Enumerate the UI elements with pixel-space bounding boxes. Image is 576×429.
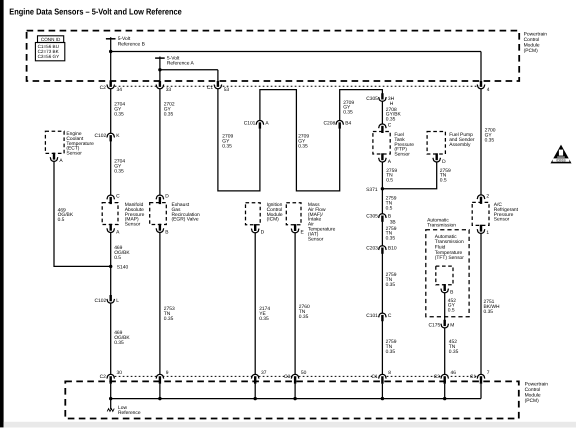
svg-text:C: C [388,123,392,129]
svg-text:30: 30 [117,370,123,376]
svg-text:Control: Control [525,387,541,393]
svg-text:0.5: 0.5 [114,255,121,261]
svg-text:B10: B10 [388,246,397,252]
svg-text:0.35: 0.35 [386,117,396,123]
svg-text:Assembly: Assembly [449,142,471,148]
svg-text:Module: Module [525,393,541,399]
svg-text:0.35: 0.35 [343,110,353,116]
svg-text:(PCM): (PCM) [524,48,538,54]
svg-text:(PCM): (PCM) [525,398,539,404]
svg-text:(TFT) Sensor: (TFT) Sensor [435,255,464,261]
svg-text:0.5: 0.5 [440,178,447,184]
svg-text:0.35: 0.35 [114,111,124,117]
svg-text:B: B [165,229,168,235]
svg-text:D: D [261,230,265,236]
svg-text:C203: C203 [366,246,378,252]
svg-text:C1: C1 [371,374,378,380]
svg-text:B4: B4 [345,120,351,126]
svg-text:5-Volt: 5-Volt [118,36,131,42]
svg-text:Sensor: Sensor [66,151,82,157]
svg-text:9: 9 [166,370,169,376]
svg-text:Automatic: Automatic [435,234,457,240]
svg-text:0.35: 0.35 [164,111,174,117]
svg-text:50: 50 [301,370,307,376]
svg-text:Sensor: Sensor [494,217,510,223]
svg-text:46: 46 [451,370,457,376]
svg-text:Engine Data Sensors – 5-Volt a: Engine Data Sensors – 5-Volt and Low Ref… [9,6,182,16]
svg-text:Temperature: Temperature [435,250,463,256]
svg-text:0.35: 0.35 [222,143,232,149]
svg-text:C3=56 GY: C3=56 GY [38,54,60,59]
svg-text:C208: C208 [323,120,335,126]
svg-text:Transmission: Transmission [435,239,464,245]
svg-text:C2: C2 [100,85,107,91]
svg-text:C305: C305 [366,214,378,220]
svg-text:Powertrain: Powertrain [524,31,548,37]
svg-text:Reference A: Reference A [167,61,195,67]
svg-text:0.35: 0.35 [386,236,396,242]
svg-text:53: 53 [224,87,230,93]
svg-text:0.35: 0.35 [114,340,124,346]
svg-text:L: L [116,298,119,304]
svg-text:(ICM): (ICM) [267,217,280,223]
svg-text:34: 34 [117,87,123,93]
svg-text:7: 7 [487,370,490,376]
svg-text:D: D [442,159,446,165]
svg-text:0.35: 0.35 [259,316,269,322]
svg-text:2: 2 [486,193,489,199]
svg-text:(EGR) Valve: (EGR) Valve [172,217,199,223]
svg-text:0.35: 0.35 [298,143,308,149]
svg-text:S140: S140 [117,264,129,270]
svg-text:Sensor: Sensor [125,222,141,228]
svg-text:C3: C3 [434,374,441,380]
svg-text:8: 8 [388,370,391,376]
svg-text:1: 1 [486,230,489,236]
svg-text:C1: C1 [207,85,214,91]
svg-text:Reference: Reference [118,410,141,416]
svg-text:Automatic: Automatic [427,217,449,223]
svg-text:4: 4 [487,87,490,93]
svg-text:0.35: 0.35 [164,316,174,322]
svg-text:0.5: 0.5 [448,308,455,314]
svg-text:3B: 3B [390,220,396,226]
svg-text:0.35: 0.35 [114,168,124,174]
svg-text:B: B [388,214,391,220]
svg-text:Sensor: Sensor [308,236,324,242]
svg-text:C101: C101 [244,120,256,126]
svg-text:C102: C102 [94,133,106,139]
svg-text:C305: C305 [366,96,378,102]
svg-text:5-Volt: 5-Volt [167,55,180,61]
svg-text:0.5: 0.5 [386,178,393,184]
svg-text:Module: Module [524,42,540,48]
svg-text:B: B [450,290,453,296]
svg-text:0.35: 0.35 [386,282,396,288]
svg-text:0.35: 0.35 [449,349,459,355]
svg-text:Reference B: Reference B [118,41,145,47]
svg-text:Sensor: Sensor [394,152,410,158]
svg-text:C102: C102 [94,298,106,304]
svg-text:0.35: 0.35 [299,314,309,320]
svg-text:CONN ID: CONN ID [41,37,61,42]
svg-text:M: M [450,323,454,329]
svg-text:0.35: 0.35 [386,349,396,355]
svg-text:C3: C3 [284,374,291,380]
svg-text:Control: Control [524,37,540,43]
svg-text:C101: C101 [366,313,378,319]
svg-text:C2: C2 [100,374,107,380]
svg-text:C175: C175 [428,323,440,329]
svg-text:H: H [390,101,394,107]
svg-text:0.35: 0.35 [485,137,495,143]
svg-text:C: C [388,313,392,319]
svg-text:C1: C1 [470,374,477,380]
svg-text:Transmission: Transmission [427,223,456,229]
svg-text:S371: S371 [366,187,378,193]
svg-text:0.5: 0.5 [58,217,65,223]
svg-text:0.5: 0.5 [386,205,393,211]
svg-text:0.35: 0.35 [484,309,494,315]
svg-text:D: D [165,194,169,200]
svg-text:Powertrain: Powertrain [525,382,549,388]
svg-text:37: 37 [261,370,267,376]
svg-text:33: 33 [166,87,172,93]
svg-text:C: C [116,194,120,200]
svg-text:0301B: 0301B [556,158,565,162]
svg-text:Fluid: Fluid [435,245,446,251]
